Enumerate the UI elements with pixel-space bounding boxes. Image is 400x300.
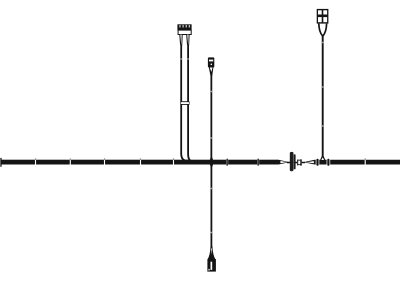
dot on C4 wire 3 xyxy=(322,125,324,127)
connector C2 top block xyxy=(208,57,214,67)
dot on C2 lower wire 1 xyxy=(211,188,213,190)
connector C4 2x2 housing xyxy=(317,9,329,24)
wire C2 lower xyxy=(211,164,213,248)
connector C1 pin block xyxy=(177,24,191,30)
connector C1 left sleeve xyxy=(179,35,182,48)
trunk taper right of grommet xyxy=(304,160,317,165)
tape collar 7 xyxy=(257,159,259,166)
left end cap xyxy=(0,158,2,167)
tape tick 5 xyxy=(173,158,174,165)
dot on C2 upper wire 2 xyxy=(211,137,213,139)
junction flare C2 bottom xyxy=(210,164,213,166)
wire C2 upper xyxy=(210,75,212,161)
tape tick 8 xyxy=(365,158,366,165)
collar right of T junction xyxy=(327,159,331,166)
wire C4 left Y lead xyxy=(319,24,323,36)
wire C4 right Y lead xyxy=(323,24,327,36)
tape tick 1 xyxy=(35,158,36,165)
dot on C1 right lead xyxy=(187,58,189,60)
wire main trunk right segment xyxy=(316,160,400,165)
junction flare C2 top xyxy=(210,158,213,160)
wire C1 left lead with elbow into trunk xyxy=(181,47,188,161)
connector C3 strain cone xyxy=(208,246,216,259)
wire main trunk left segment xyxy=(1,160,278,165)
wire C4 drop xyxy=(322,35,324,160)
tape tick 4 xyxy=(140,158,141,165)
clip band on C1 leads xyxy=(180,101,189,105)
thin trunk through grommet xyxy=(287,162,305,164)
grommet body xyxy=(294,153,296,170)
connector C1 body xyxy=(178,30,191,34)
dot on C2 upper wire 1 xyxy=(211,91,213,93)
dot on C1 left lead xyxy=(180,58,182,60)
dot on C2 lower wire 2 xyxy=(211,232,213,234)
tape tick 2 xyxy=(70,158,71,165)
tape collar 6 xyxy=(226,159,228,166)
tape tick 3 xyxy=(104,158,105,165)
connector C1 right sleeve xyxy=(186,35,189,48)
collar left of T junction xyxy=(316,159,320,166)
junction flare C4 xyxy=(320,156,326,160)
bead sleeve xyxy=(297,159,302,166)
connector C2 taper xyxy=(209,67,214,75)
dot on C4 wire 2 xyxy=(322,86,324,88)
wire C1 right lead with elbow into trunk xyxy=(188,47,194,162)
grommet flange xyxy=(290,152,294,171)
trunk taper left of grommet xyxy=(277,160,289,165)
connector C3 bottom block xyxy=(207,259,216,272)
dot on C4 wire 1 xyxy=(322,42,324,44)
